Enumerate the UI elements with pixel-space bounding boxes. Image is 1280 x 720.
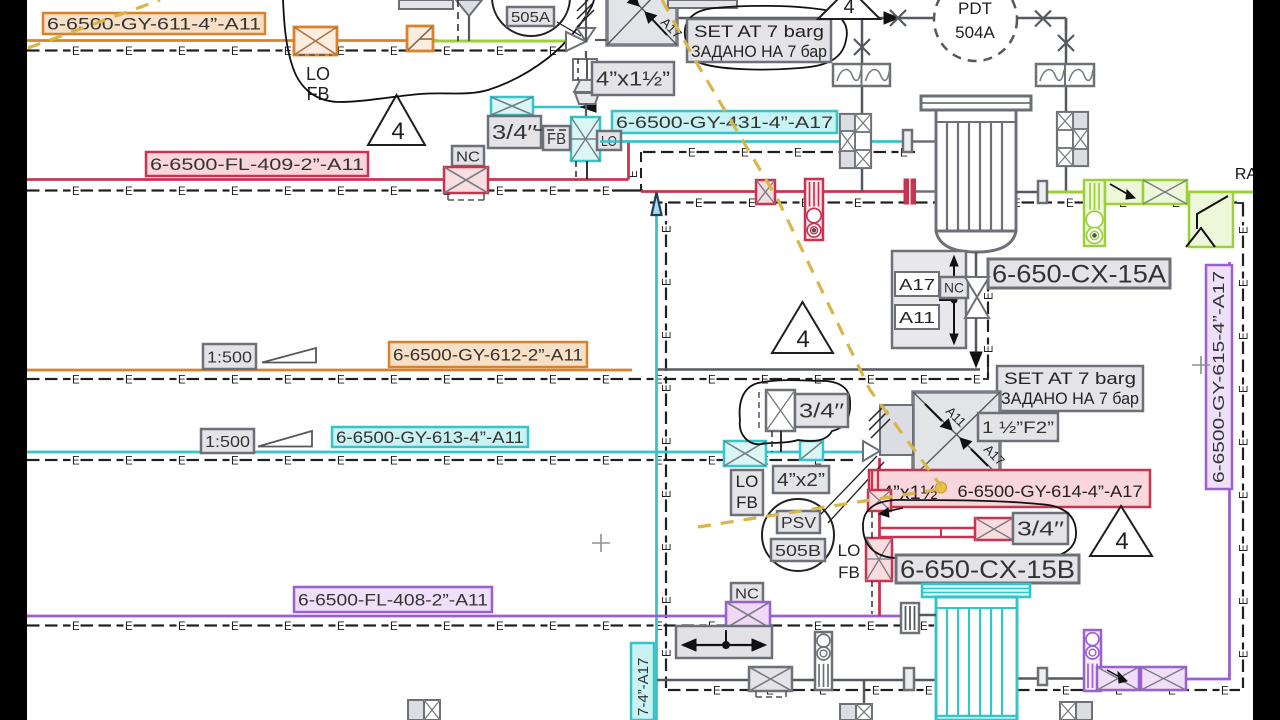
svg-text:E: E (920, 621, 928, 633)
svg-text:1:500: 1:500 (207, 349, 252, 366)
svg-text:6-6500-FL-409-2”-A11: 6-6500-FL-409-2”-A11 (150, 155, 364, 174)
svg-text:E: E (390, 46, 398, 58)
black bar left (0, 0, 27, 720)
svg-text:LO: LO (736, 472, 759, 491)
E-trace for line GY-611 (27, 49, 40, 51)
reducer pair on PSV-505A inlet (573, 59, 597, 80)
svg-text:E: E (231, 374, 239, 386)
svg-text:E: E (1238, 597, 1250, 605)
svg-text:E: E (72, 186, 80, 198)
E-trace bottom drain header left (668, 689, 681, 691)
svg-text:E: E (983, 292, 995, 300)
svg-text:E: E (443, 621, 451, 633)
valve cyan gate 3/4 branch (491, 97, 533, 115)
pipe vertical PSV inlet (585, 51, 587, 58)
svg-text:E: E (284, 374, 292, 386)
valve manifold column right (1057, 112, 1088, 166)
pipe gray nozzle into vessel 15A left (912, 140, 936, 143)
svg-text:4: 4 (391, 118, 404, 145)
svg-text:LO: LO (306, 64, 330, 84)
svg-text:E: E (1221, 685, 1229, 697)
svg-text:E: E (794, 147, 802, 159)
svg-text:PDT: PDT (958, 0, 992, 18)
svg-text:E: E (708, 455, 716, 467)
svg-text:6-6500-GY-613-4”-A11: 6-6500-GY-613-4”-A11 (336, 429, 524, 447)
svg-text:6-6500-GY-615-4”-A17: 6-6500-GY-615-4”-A17 (1211, 271, 1228, 483)
steam trap assembly green (1084, 180, 1105, 246)
label 3/4in upper (795, 394, 848, 427)
svg-text:E: E (549, 621, 557, 633)
svg-text:1:500: 1:500 (205, 434, 250, 451)
svg-text:6-650-CX-15A: 6-650-CX-15A (992, 261, 1166, 289)
pipe gray header at y369 to vessel 15A outlet (656, 368, 980, 371)
vessel 6-650-CX-15B body (936, 597, 1017, 720)
svg-text:E: E (602, 186, 610, 198)
svg-text:3/4′′: 3/4′′ (799, 401, 844, 423)
label 505B (771, 539, 825, 561)
E-trace vertical at vessel 15A outlet (987, 270, 989, 283)
svg-text:E: E (125, 186, 133, 198)
pipe cyan vertical main riser x656 (655, 193, 658, 720)
svg-text:4: 4 (1115, 528, 1128, 555)
label 3/4in red drain (1013, 513, 1068, 544)
svg-text:E: E (695, 198, 703, 210)
pipe cyan stub LO valve to GY-431 (600, 140, 620, 143)
E-trace vertical jog at x641 (640, 152, 642, 190)
label 3/4in (488, 116, 541, 148)
svg-text:E: E (602, 621, 610, 633)
svg-text:E: E (1238, 332, 1250, 340)
label PSV (777, 511, 820, 533)
E-trace for line FL-408 (27, 624, 40, 626)
pipe red drain header (641, 190, 905, 193)
control valve box A17 top (607, 0, 677, 45)
black bar right (1253, 0, 1280, 720)
E-trace for line FL-409 right (650, 201, 663, 203)
svg-text:E: E (602, 455, 610, 467)
svg-text:E: E (390, 374, 398, 386)
valve pair cut at bottom edge left (408, 700, 424, 720)
svg-text:E: E (1238, 438, 1250, 446)
crosshair mark left (592, 542, 610, 544)
yellow dashed line diagonal main (662, 0, 941, 486)
svg-text:E: E (973, 374, 981, 386)
svg-text:E: E (178, 186, 186, 198)
svg-text:E: E (661, 596, 673, 604)
vessel 6-650-CX-15A bottom dome (936, 231, 1016, 252)
label FB (543, 126, 570, 150)
svg-text:E: E (231, 621, 239, 633)
top vent valve triangle (456, 0, 482, 16)
svg-text:E: E (72, 46, 80, 58)
relief valve PSV-505A body (566, 32, 586, 51)
pipe green segment to PSV-505A (433, 40, 567, 43)
svg-text:3/4′′: 3/4′′ (492, 122, 537, 144)
pipe top gray instrument header y18 (677, 17, 934, 20)
svg-text:E: E (1062, 685, 1070, 697)
svg-text:6-6500-GY-431-4”-A17: 6-6500-GY-431-4”-A17 (616, 113, 833, 132)
label LO FB on GY-613 (731, 470, 763, 515)
svg-text:E: E (496, 455, 504, 467)
triangle note 4 top edge (818, 0, 880, 19)
svg-text:E: E (231, 455, 239, 467)
flange 15B lower right nozzle (1038, 668, 1047, 685)
note box SET AT 7 barg top (687, 19, 831, 62)
label box FL-409 (146, 152, 368, 176)
svg-text:SET AT 7 barg: SET AT 7 barg (1004, 369, 1136, 388)
dashed corner at header jog (983, 366, 988, 379)
label box GY-613 (332, 427, 528, 447)
flange left cyan nozzle 15A (903, 130, 912, 152)
label 4x1-1/2 top (592, 62, 674, 95)
red H-bars above small valve (871, 471, 873, 489)
svg-text:E: E (661, 331, 673, 339)
label box FL-408 (294, 587, 492, 612)
control valve box A11/A17 mid (913, 392, 1000, 477)
slope symbol upper (262, 348, 316, 363)
label box GY-614 red (869, 470, 1150, 507)
label LO (597, 131, 621, 150)
drain line 3/4 valve to GY-613 (780, 431, 782, 452)
svg-text:E: E (443, 374, 451, 386)
valve NC on FL-409 (444, 167, 488, 193)
svg-text:E: E (284, 455, 292, 467)
inline mixer left (833, 64, 890, 86)
valve manifold column left (840, 114, 871, 168)
pipe GY-431 cyan horizontal (618, 140, 904, 143)
flange 15B lower left nozzle (904, 668, 914, 690)
svg-text:E: E (72, 374, 80, 386)
dashed actuator left of 3/4 valve (758, 392, 760, 429)
svg-text:FB: FB (736, 493, 758, 512)
svg-text:3/4′′: 3/4′′ (1017, 519, 1064, 541)
svg-text:E: E (231, 186, 239, 198)
E-trace for line GY-431 (643, 151, 656, 153)
revision cloud around GY-611 valves (283, 0, 594, 102)
yellow dashed line top-left (28, 0, 160, 48)
hatched spring box left of A11/A17 (880, 405, 913, 455)
svg-text:NC: NC (944, 280, 964, 296)
note box SET AT 7 barg right line1 (997, 366, 1143, 411)
closed valve X on right branch (1058, 35, 1074, 51)
valve cyan vertical LO (571, 117, 600, 161)
svg-text:E: E (872, 685, 880, 697)
vessel 6-650-CX-15B top cap (922, 584, 1030, 597)
svg-text:NC: NC (456, 148, 480, 165)
label NC purple (731, 583, 763, 603)
black arrow into riser (581, 102, 596, 112)
svg-text:E: E (496, 46, 504, 58)
valve gate red drain header (756, 180, 775, 204)
svg-text:505B: 505B (775, 543, 821, 560)
svg-text:ЗАДАНО НА 7 бар: ЗАДАНО НА 7 бар (1001, 389, 1139, 408)
valve V1 gate on GY-611 (294, 27, 337, 55)
svg-text:FB: FB (547, 131, 566, 148)
black arrow between purple valves (1107, 670, 1123, 679)
check valve V2 on GY-611 (407, 26, 433, 51)
svg-text:1 ½”F2”: 1 ½”F2” (982, 418, 1054, 437)
svg-text:505A: 505A (511, 9, 550, 26)
wire black connector on FL-409 trace (612, 189, 643, 191)
drain lines below LO valve (586, 161, 588, 179)
svg-text:E: E (72, 621, 80, 633)
svg-text:4”x2”: 4”x2” (777, 470, 825, 490)
svg-text:E: E (549, 374, 557, 386)
steam trap assembly red (805, 179, 823, 240)
check valve cyan on GY-613 (800, 441, 823, 460)
valve NC vertical bowtie at 15A outlet (965, 277, 989, 297)
svg-text:E: E (1238, 226, 1250, 234)
dashed outline under NC valve (448, 199, 484, 201)
control valve green with arrow (1105, 180, 1143, 204)
svg-text:E: E (178, 374, 186, 386)
svg-text:E: E (983, 345, 995, 353)
svg-text:E: E (661, 437, 673, 445)
valve cyan gate on GY-613 (724, 441, 766, 466)
E-trace vertical at x666 (665, 203, 667, 216)
vessel 6-650-CX-15A body (936, 110, 1016, 231)
svg-text:E: E (284, 186, 292, 198)
spectacle blind box with double arrow (676, 626, 772, 658)
label 1-1/2 F2 (978, 413, 1058, 441)
instrument box A17/A11 at 15A outlet (892, 251, 966, 348)
cut label 2x1-1/2 top (668, 0, 737, 8)
svg-text:E: E (920, 374, 928, 386)
svg-text:4”x1½”: 4”x1½” (596, 69, 670, 91)
svg-text:4: 4 (796, 326, 809, 353)
label box GY-617 vertical cyan (631, 643, 654, 720)
svg-text:E: E (496, 621, 504, 633)
revision cloud around 505B manifold (863, 500, 1076, 560)
pipe GY-611 orange horizontal (27, 39, 437, 42)
svg-text:E: E (661, 543, 673, 551)
label 505A (507, 7, 554, 26)
arrowhead cyan riser top (652, 193, 662, 216)
svg-text:PSV: PSV (781, 515, 816, 532)
svg-text:E: E (661, 278, 673, 286)
pipe gray bottom drain header (657, 679, 936, 682)
pipe FL-408 purple horizontal (27, 615, 901, 618)
flange pair red at vessel 15A (904, 179, 909, 204)
revision cloud around 3/4 valve (740, 380, 851, 444)
inline strainer symbol at 15B left nozzle (901, 603, 919, 633)
revision cloud around SET AT note top (685, 6, 847, 70)
dashed actuator outline under valve V1 (299, 54, 332, 56)
svg-text:E: E (178, 46, 186, 58)
vessel 6-650-CX-15A top cap (921, 96, 1031, 110)
svg-text:E: E (867, 621, 875, 633)
pipe purple right riser and bottom run (1186, 262, 1230, 679)
steam trap assembly gray bottom (815, 632, 832, 690)
instrument bubble PSV-505B circle (762, 499, 834, 571)
svg-text:E: E (602, 374, 610, 386)
svg-text:E: E (231, 46, 239, 58)
svg-text:E: E (1238, 544, 1250, 552)
svg-text:E: E (125, 455, 133, 467)
svg-text:E: E (178, 455, 186, 467)
pipe 15A outlet to header with arrow (975, 318, 978, 360)
svg-text:6-650-CX-15B: 6-650-CX-15B (900, 556, 1075, 584)
valve red small gate (868, 490, 891, 511)
dashed connector under 3/4 branch (535, 129, 571, 131)
corner top right header (1065, 18, 1068, 30)
triangle note 4 at GY-614 (1090, 506, 1152, 556)
svg-text:6-6500-FL-408-2”-A11: 6-6500-FL-408-2”-A11 (298, 591, 488, 610)
PSV-505B valve body triangle (863, 441, 880, 461)
label 1:500 lower (201, 429, 254, 453)
pipe red manifold parallel lines to 3/4 valve (880, 527, 976, 530)
corner dashed to right margin (1237, 203, 1243, 208)
valve pair cut at bottom edge right (1060, 702, 1076, 720)
E-trace bottom drain header right (1017, 689, 1030, 691)
closed valve X right of PDT (1035, 11, 1051, 27)
crosshair mark right (1192, 364, 1210, 366)
E-trace right of vessel 15A (915, 201, 928, 203)
stub line into A17 box (595, 39, 607, 41)
svg-text:E: E (1238, 650, 1250, 658)
svg-text:SET AT 7 barg: SET AT 7 barg (694, 22, 824, 41)
label box GY-431 (612, 111, 837, 133)
dashed connectors at red vertical (871, 512, 873, 538)
cut label above top valve (399, 0, 453, 9)
svg-text:E: E (925, 685, 933, 697)
valve purple gate 1 (1097, 667, 1139, 690)
svg-text:E: E (1066, 198, 1074, 210)
svg-text:E: E (708, 374, 716, 386)
svg-text:E: E (178, 621, 186, 633)
E-trace vertical right margin (1242, 204, 1244, 217)
pipe GY-612 orange horizontal (27, 369, 632, 372)
svg-text:E: E (854, 198, 862, 210)
svg-text:E: E (337, 374, 345, 386)
steam trap assembly purple (1084, 630, 1101, 691)
svg-text:LO: LO (838, 541, 861, 560)
svg-text:6-6500-GY-614-4”-A17: 6-6500-GY-614-4”-A17 (958, 482, 1143, 501)
svg-text:E: E (443, 46, 451, 58)
pipe vertical instrument branch right x1066 (1065, 18, 1068, 64)
valve NC purple on FL-408 (726, 602, 770, 628)
label box GY-615 vertical (1206, 265, 1232, 489)
valve gray 3/4 vertical (766, 390, 795, 431)
valve gate bottom header (749, 667, 792, 691)
svg-text:E: E (125, 374, 133, 386)
svg-text:NC: NC (735, 585, 759, 602)
yellow dashed line from PSV-505B (698, 489, 941, 527)
vessel 15A outlet pipe (975, 252, 978, 277)
svg-text:E: E (1238, 279, 1250, 287)
double arrow selector (953, 262, 955, 338)
pipe gray 15B left nozzle (919, 614, 936, 617)
svg-text:E: E (549, 186, 557, 198)
svg-text:E: E (867, 374, 875, 386)
label NC top (452, 146, 484, 166)
inline mixer right (1036, 64, 1094, 86)
E-trace for line GY-613 (27, 459, 40, 461)
svg-text:E: E (337, 455, 345, 467)
dashed outline under bottom header valve (756, 696, 786, 698)
valve red vertical LO FB (866, 538, 892, 581)
valve red 3/4 drain (975, 518, 1013, 540)
tee to bottom cut valve (863, 680, 866, 705)
callout arrow to red valve (884, 508, 903, 512)
svg-text:E: E (688, 147, 696, 159)
svg-text:E: E (390, 186, 398, 198)
svg-text:E: E (713, 685, 721, 697)
instrument bubble PSV-505A circle (492, 0, 570, 36)
svg-text:E: E (1238, 491, 1250, 499)
svg-text:E: E (390, 455, 398, 467)
PSV-505A outlet vertical with hatches (585, 0, 587, 42)
pipe FL-409 red horizontal left (27, 178, 629, 181)
valve green gate (1143, 180, 1187, 204)
pipe gray bottom right nozzle run (1017, 677, 1084, 680)
svg-text:ЗАДАНО НА 7 бар: ЗАДАНО НА 7 бар (691, 42, 827, 61)
label 4x2 on GY-613 (773, 466, 829, 493)
svg-text:E: E (761, 374, 769, 386)
pipe GY-613 cyan horizontal (27, 451, 863, 454)
funnel drain box green (1189, 192, 1233, 247)
svg-text:A17: A17 (899, 277, 935, 294)
label 1:500 upper (203, 344, 256, 369)
svg-text:E: E (72, 455, 80, 467)
pipe red vertical drop x879 (878, 458, 881, 616)
svg-text:E: E (125, 46, 133, 58)
yellow junction dot (936, 482, 947, 493)
pipe green product line y192 (1047, 191, 1253, 194)
pipe vertical instrument branch left x862 (861, 18, 864, 64)
svg-text:FB: FB (838, 563, 860, 582)
black flow arrow right on header (884, 12, 899, 24)
svg-text:E: E (390, 621, 398, 633)
svg-text:A11: A11 (899, 310, 935, 327)
svg-text:E: E (549, 455, 557, 467)
svg-text:E: E (661, 384, 673, 392)
pipe FL-409 vertical riser to GY-431 (627, 142, 630, 180)
E-trace for line GY-612 (27, 378, 40, 380)
closed valve X on left branch (854, 39, 870, 55)
label box 6-650-CX-15A (988, 259, 1170, 288)
valve purple gate 2 (1141, 667, 1186, 690)
svg-text:E: E (661, 490, 673, 498)
svg-text:E: E (661, 225, 673, 233)
svg-text:E: E (337, 621, 345, 633)
triangle note 4 center (772, 302, 833, 353)
instrument bubble PDT-504A dashed circle (934, 0, 1017, 61)
callout lines 505B to valve (821, 456, 877, 514)
svg-text:E: E (1238, 385, 1250, 393)
svg-text:E: E (661, 649, 673, 657)
closed valve X left of PDT (890, 10, 906, 26)
label box GY-612 (389, 342, 587, 367)
svg-text:4: 4 (843, 0, 854, 18)
slope symbol lower (258, 431, 312, 447)
callout line 505A to valve (557, 22, 581, 36)
valve pair cut at bottom edge center (840, 704, 856, 720)
svg-text:504A: 504A (955, 23, 995, 42)
label NC at 15A outlet (940, 277, 968, 298)
label box GY-611 (43, 13, 265, 34)
E-trace for line FL-409 left (27, 189, 40, 191)
dashed outline under purple valve (732, 630, 766, 632)
svg-text:E: E (337, 186, 345, 198)
triangle note 4 top-left (368, 95, 425, 145)
pipe cyan 3/4 branch (533, 106, 586, 109)
svg-text:7-4”-A17: 7-4”-A17 (635, 658, 652, 716)
svg-text:E: E (443, 455, 451, 467)
label box 6-650-CX-15B (896, 555, 1079, 583)
svg-text:E: E (284, 621, 292, 633)
flange right nozzle 15A (1016, 191, 1039, 194)
